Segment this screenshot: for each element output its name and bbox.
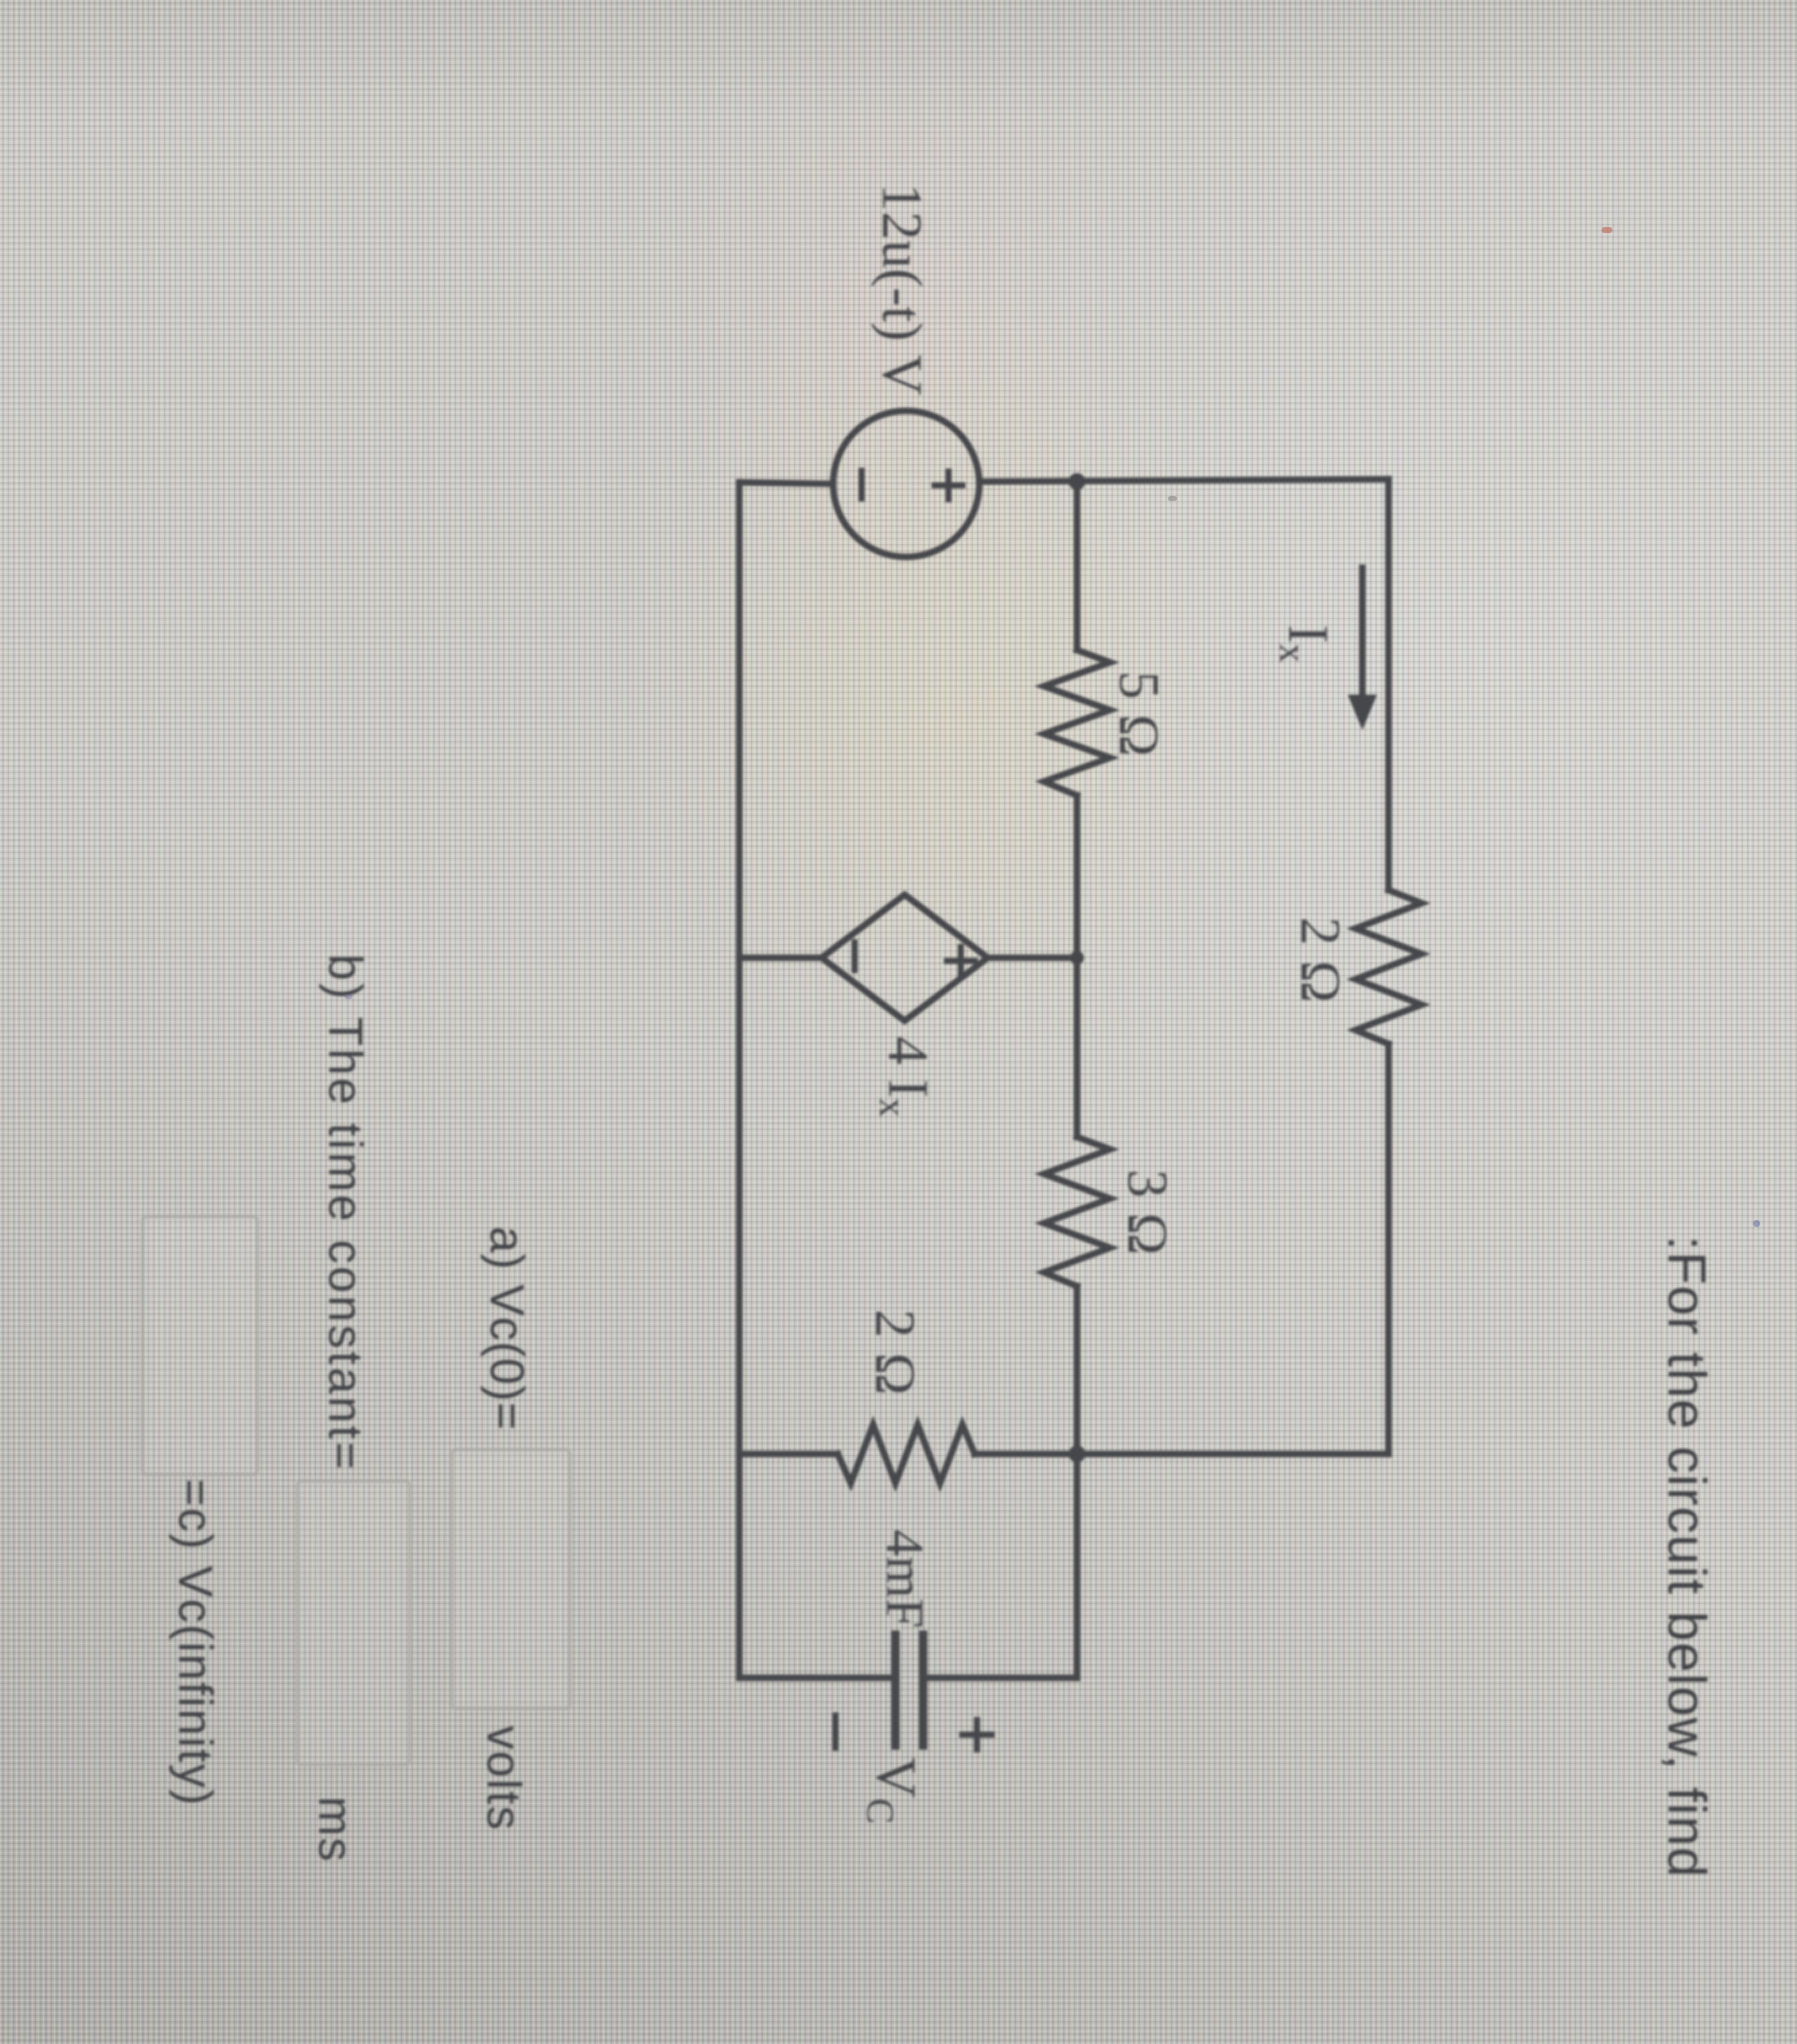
- wire top right segment: [1385, 1044, 1392, 1454]
- wire branch 1890 upper: [975, 1451, 1389, 1458]
- minus sign inside source: [858, 471, 865, 498]
- label 4Ix: [872, 1036, 939, 1117]
- wire top (node A to top-right corner): [1385, 479, 1392, 890]
- label source value 12u(-t) V: [870, 183, 933, 395]
- source V1 circle 12u(-t): [833, 411, 979, 557]
- label 5ohm: [1107, 671, 1170, 757]
- svg-text:3 Ω: 3 Ω: [1115, 1169, 1179, 1255]
- resistor R 3ohm zigzag: [1044, 1137, 1110, 1286]
- wire branch 1890 lower: [739, 1451, 838, 1458]
- label Ix current: [1272, 625, 1339, 663]
- minus sign Vc: [832, 1716, 838, 1748]
- wire middle left (node C to 5ohm): [1074, 482, 1081, 650]
- svg-text:4 Ix: 4 Ix: [872, 1036, 939, 1117]
- wire middle between 5ohm and 3ohm: [1074, 795, 1081, 1137]
- wire diamond branch upper: [988, 955, 1077, 962]
- answer row b text: [318, 954, 372, 1472]
- svg-text:2 Ω: 2 Ω: [863, 1309, 926, 1395]
- plus sign inside source: [935, 472, 962, 499]
- svg-text:4mF: 4mF: [875, 1529, 934, 1628]
- wire right branch lower: [739, 1675, 895, 1682]
- resistor R top 2ohm zigzag: [1355, 890, 1422, 1044]
- junction node B dot: [1069, 1445, 1085, 1462]
- label volts: [476, 1726, 531, 1831]
- label 4mF: [875, 1529, 934, 1628]
- svg-text:5 Ω: 5 Ω: [1107, 671, 1170, 757]
- title: [1656, 1235, 1718, 1879]
- svg-text:12u(-t) V: 12u(-t) V: [870, 183, 933, 395]
- answer row a text: [479, 1226, 534, 1431]
- resistor R 5ohm zigzag: [1044, 650, 1110, 795]
- wire bottom: [736, 482, 743, 1678]
- answer box c: [142, 1215, 258, 1475]
- svg-text:2 Ω: 2 Ω: [1289, 917, 1352, 1003]
- wire right branch upper (to capacitor): [923, 1675, 1077, 1682]
- wire left side lower: [739, 482, 833, 484]
- label 2ohm top: [1289, 917, 1352, 1003]
- label ms: [308, 1796, 362, 1863]
- wire left side upper: [979, 479, 1389, 482]
- resistor R lower 2ohm zigzag vertical: [838, 1425, 975, 1483]
- answer box b: [296, 1480, 411, 1766]
- wire middle right: [1074, 1286, 1081, 1678]
- junction node C dot: [1069, 473, 1085, 490]
- junction diamond tap dot: [1070, 951, 1084, 965]
- answer box a: [451, 1449, 571, 1709]
- wire diamond branch lower: [739, 955, 822, 962]
- label 3ohm: [1115, 1169, 1179, 1255]
- answer row c text: [168, 1479, 222, 1806]
- Ix arrow on top wire: [1348, 568, 1377, 730]
- svg-text:Ix: Ix: [1272, 625, 1339, 663]
- label 2ohm lower: [863, 1309, 926, 1395]
- capacitor C 4mF plates: [895, 1635, 923, 1746]
- minus sign inside diamond: [852, 942, 858, 970]
- svg-text:VC: VC: [859, 1757, 927, 1824]
- plus sign Vc: [962, 1720, 992, 1749]
- label Vc: [859, 1757, 927, 1824]
- plus sign inside diamond: [947, 947, 975, 975]
- dependent source diamond 4Ix: [822, 895, 988, 1021]
